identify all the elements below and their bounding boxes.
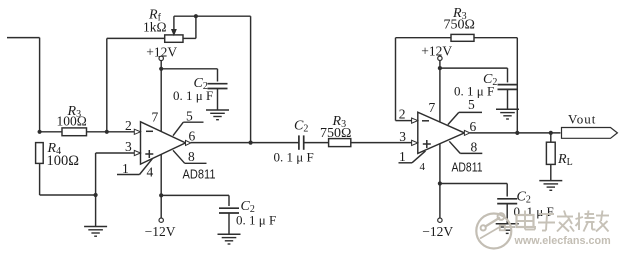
ground (U1 +12V bypass) bbox=[206, 110, 229, 120]
pin 8 wire (U1) bbox=[173, 150, 207, 163]
wire pot right terminal up bbox=[195, 16, 197, 38]
wire pin2 feedback vertical (U2) bbox=[395, 38, 397, 121]
label pin 1 (U1) bbox=[122, 161, 129, 176]
svg-text:1: 1 bbox=[122, 161, 129, 176]
wire C2 neg bypass top stub (U1) bbox=[228, 195, 230, 206]
wire U1 output bbox=[191, 142, 299, 144]
value 0.1uF (U1 +12V bypass) bbox=[173, 88, 213, 103]
op-amp U2 plus sign bbox=[423, 140, 431, 148]
node pot-leg/pin2 junction bbox=[105, 130, 109, 134]
label RL designator bbox=[557, 152, 573, 168]
capacitor C2 coupling bbox=[299, 135, 304, 149]
node +12V junction (U1) bbox=[159, 67, 163, 71]
label pin 3 (U1) bbox=[125, 139, 132, 154]
label pin 2 (U1) bbox=[125, 118, 132, 133]
pin 2 arrowhead (U2) bbox=[412, 118, 418, 123]
label pin 7 (U2) bbox=[429, 100, 436, 115]
pin 5 wire (U1) bbox=[173, 122, 204, 136]
wire C2 bypass bottom stub (U2) bbox=[507, 89, 509, 109]
label R4 designator bbox=[47, 141, 62, 157]
node ground junction (pin3/R4) bbox=[94, 193, 98, 197]
op-amp U1 plus sign bbox=[145, 150, 153, 158]
pin 1 wire (U1) bbox=[117, 159, 152, 175]
wire +12V to C2 bypass bbox=[161, 68, 217, 70]
node feedback/output junction (U1) bbox=[249, 141, 253, 145]
label C2 (U1 -12V bypass) bbox=[241, 199, 255, 215]
svg-text:1: 1 bbox=[399, 149, 406, 164]
label R3 feedback designator bbox=[452, 6, 467, 22]
wire -12V to C2 bypass (U1) bbox=[161, 194, 229, 196]
svg-text:8: 8 bbox=[471, 139, 478, 154]
svg-text:1kΩ: 1kΩ bbox=[143, 20, 167, 35]
svg-text:750Ω: 750Ω bbox=[320, 126, 351, 141]
node +12V junction (U2) bbox=[438, 66, 442, 70]
value 100 ohm (R4) bbox=[47, 153, 80, 169]
value 0.1uF coupling bbox=[274, 150, 314, 165]
pin 3 arrowhead (U1) bbox=[134, 150, 140, 155]
wire U2 output bbox=[470, 132, 561, 134]
wire C2 neg bypass bottom stub (U2) bbox=[506, 204, 508, 224]
wire input horizontal bbox=[7, 37, 40, 39]
svg-text:8: 8 bbox=[188, 149, 195, 164]
svg-text:2: 2 bbox=[399, 107, 406, 122]
wire C2 bypass top stub (U2) bbox=[507, 68, 509, 82]
pot wiper arrow bbox=[172, 16, 176, 35]
node RL junction (output) bbox=[549, 131, 553, 135]
wire -12V to C2 bypass (U2) bbox=[440, 183, 507, 185]
wire feedback top right (U2) bbox=[474, 37, 517, 39]
label pin 6 (U2) bbox=[470, 119, 477, 134]
svg-text:100Ω: 100Ω bbox=[47, 153, 80, 169]
wire R3 series to pin3 (U2) bbox=[351, 142, 412, 144]
wire C2 neg bypass top stub (U2) bbox=[506, 184, 508, 197]
svg-text:750Ω: 750Ω bbox=[444, 18, 475, 33]
svg-text:6: 6 bbox=[189, 129, 196, 144]
Vout flag bbox=[562, 128, 618, 139]
wire feedback top left (U2) bbox=[396, 37, 452, 39]
pin 6 output arrowhead (U1) bbox=[186, 140, 191, 145]
wire V+ rail through U1 (pin7 to pin4) bbox=[160, 69, 162, 196]
label pin 4 (U1) bbox=[147, 165, 154, 180]
label C2 (U2 +12V bypass) bbox=[483, 72, 497, 88]
terminal -12V (U2) bbox=[438, 218, 442, 222]
ground (RL) bbox=[539, 181, 562, 191]
wire R4 to ground junction bbox=[40, 194, 96, 196]
value 750 ohm (series) bbox=[320, 126, 351, 141]
wire pin3 vertical bbox=[95, 153, 97, 195]
node -12V junction (U2) bbox=[438, 181, 442, 185]
svg-text:3: 3 bbox=[399, 129, 406, 144]
label AD811 (U2) bbox=[452, 161, 483, 175]
label Rf designator bbox=[148, 8, 162, 24]
label Vout bbox=[568, 111, 596, 126]
label -12V (U1) bbox=[145, 224, 176, 239]
svg-text:4: 4 bbox=[420, 161, 426, 173]
pin 1 wire (U2) bbox=[399, 151, 426, 163]
svg-text:3: 3 bbox=[125, 139, 132, 154]
ground (U1 -12V bypass) bbox=[218, 234, 241, 244]
wire +12V stub (U2) bbox=[439, 60, 441, 68]
wire RL top stub bbox=[550, 133, 552, 142]
wire +12V stub bbox=[160, 61, 162, 69]
value 0.1uF (U1 -12V bypass) bbox=[236, 212, 276, 227]
wire ground stub bbox=[95, 195, 97, 227]
svg-text:6: 6 bbox=[470, 119, 477, 134]
wire pot right terminal bbox=[183, 37, 196, 39]
label R3 series designator bbox=[332, 114, 347, 130]
value 750 ohm (feedback) bbox=[444, 18, 475, 33]
label pin 2 (U2) bbox=[399, 107, 406, 122]
resistor R4 (100 ohm, vertical) bbox=[36, 143, 44, 164]
wire R4 bottom bbox=[39, 163, 41, 195]
svg-text:100Ω: 100Ω bbox=[57, 114, 87, 129]
label pin 1 (U2) bbox=[399, 149, 406, 164]
wire input vertical drop bbox=[39, 38, 41, 132]
wire pin2 (U2) bbox=[396, 120, 412, 122]
wire R4-junction to R3 left bbox=[40, 131, 62, 133]
terminal -12V (U1) bbox=[159, 218, 163, 222]
node input/R3/R4 junction bbox=[38, 130, 42, 134]
node feedback junction (output) bbox=[515, 131, 519, 135]
label R3 designator bbox=[67, 104, 82, 120]
pin 3 arrowhead (U2) bbox=[412, 140, 418, 145]
resistor RL (load, vertical) bbox=[546, 142, 555, 164]
terminal +12V (U2) bbox=[438, 56, 442, 60]
watermark url www.elecfans.com bbox=[514, 235, 611, 247]
resistor R3 series (750 ohm) bbox=[329, 139, 351, 147]
capacitor C2 (U2 +12V bypass) bbox=[498, 85, 518, 90]
wire R3 right to pin2 arrow bbox=[87, 131, 135, 133]
svg-text:AD811: AD811 bbox=[183, 168, 216, 182]
value 0.1uF (U2 +12V bypass) bbox=[454, 83, 494, 98]
label C2 coupling bbox=[294, 118, 308, 134]
svg-text:4: 4 bbox=[147, 165, 154, 180]
potentiometer Rf body (1k ohm) bbox=[165, 35, 183, 42]
svg-text:7: 7 bbox=[429, 100, 436, 115]
wire feedback vertical to output bbox=[250, 16, 252, 142]
node -12V junction (U1) bbox=[159, 193, 163, 197]
label C2 (U2 -12V bypass) bbox=[517, 190, 531, 206]
svg-text:www.elecfans.com: www.elecfans.com bbox=[514, 235, 611, 247]
op-amp U2 minus sign bbox=[422, 120, 429, 122]
terminal +12V (U1) bbox=[159, 56, 163, 60]
wire coupling cap to R3 bbox=[304, 142, 329, 144]
svg-text:0. 1 μ F: 0. 1 μ F bbox=[173, 88, 213, 103]
svg-text:5: 5 bbox=[468, 97, 475, 112]
label pin 3 (U2) bbox=[399, 129, 406, 144]
wire pot left horizontal bbox=[107, 37, 165, 39]
ground (R4/pin3) bbox=[84, 227, 107, 237]
wire V+ rail through U2 (pin7 to pin4) bbox=[439, 68, 441, 183]
label C2 (U1 +12V bypass) bbox=[194, 76, 208, 92]
wire +12V to C2 bypass (U2) bbox=[440, 67, 508, 69]
label pin 5 (U2) bbox=[468, 97, 475, 112]
svg-text:Vout: Vout bbox=[568, 111, 596, 126]
value 0.1uF (U2 -12V bypass) bbox=[514, 204, 554, 219]
label +12V (U2) bbox=[421, 44, 452, 59]
op-amp U2 triangle (AD811) bbox=[418, 112, 465, 153]
op-amp U1 minus sign bbox=[146, 130, 153, 132]
node wiper/right-terminal junction bbox=[194, 14, 198, 18]
label pin 5 (U1) bbox=[186, 108, 193, 123]
wire RL bottom stub bbox=[550, 164, 552, 180]
ground (U2 -12V bypass) bbox=[496, 224, 519, 234]
label AD811 (U1) bbox=[183, 168, 216, 182]
svg-text:5: 5 bbox=[186, 108, 193, 123]
watermark text dianzifashaoyou bbox=[517, 211, 610, 232]
svg-text:AD811: AD811 bbox=[452, 161, 483, 175]
pin 6 output arrowhead (U2) bbox=[464, 130, 470, 135]
op-amp U1 triangle (AD811) bbox=[141, 122, 186, 164]
label +12V (U1) bbox=[146, 44, 177, 59]
svg-text:+12V: +12V bbox=[421, 44, 452, 59]
value 100 ohm (R3) bbox=[57, 114, 87, 129]
wire -12V stub (U1) bbox=[160, 195, 162, 218]
pin 8 wire (U2) bbox=[449, 141, 482, 153]
svg-text:−12V: −12V bbox=[422, 224, 453, 239]
wire wiper top horizontal bbox=[174, 15, 251, 17]
capacitor C2 (U2 -12V bypass) bbox=[497, 199, 517, 204]
pin 2 arrowhead (U1) bbox=[134, 129, 140, 134]
watermark logo circle bbox=[476, 213, 514, 248]
wire C2 bypass bottom stub bbox=[217, 89, 219, 111]
wire pin3 horizontal bbox=[96, 152, 135, 154]
resistor R3 feedback (750 ohm) bbox=[451, 34, 474, 41]
wire C2 bypass top stub bbox=[217, 69, 219, 82]
pin 5 wire (U2) bbox=[448, 112, 482, 124]
resistor R3 (100 ohm, input) bbox=[62, 128, 87, 136]
wire C2 neg bypass bottom stub (U1) bbox=[228, 213, 230, 234]
ground (U2 +12V bypass) bbox=[496, 109, 519, 119]
svg-text:−12V: −12V bbox=[145, 224, 176, 239]
svg-text:0. 1 μ F: 0. 1 μ F bbox=[274, 150, 314, 165]
label -12V (U2) bbox=[422, 224, 453, 239]
wire -12V stub (U2) bbox=[439, 184, 441, 219]
label pin 7 (U1) bbox=[152, 110, 159, 125]
label pin 4 (U2) bbox=[420, 161, 426, 173]
svg-text:0. 1 μ F: 0. 1 μ F bbox=[236, 212, 276, 227]
wire feedback right vertical (U2) bbox=[516, 38, 518, 133]
capacitor C2 (U1 +12V bypass) bbox=[208, 84, 228, 89]
svg-text:2: 2 bbox=[125, 118, 132, 133]
value 1k ohm (Rf) bbox=[143, 20, 167, 35]
wire pot left vertical bbox=[106, 38, 108, 131]
label pin 6 (U1) bbox=[189, 129, 196, 144]
label pin 8 (U2) bbox=[471, 139, 478, 154]
svg-text:7: 7 bbox=[152, 110, 159, 125]
capacitor C2 (U1 -12V bypass) bbox=[219, 208, 239, 213]
label pin 8 (U1) bbox=[188, 149, 195, 164]
